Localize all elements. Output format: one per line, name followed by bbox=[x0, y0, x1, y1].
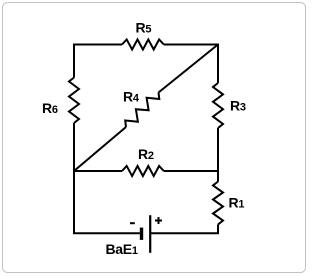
wire top-left corner: top wire left part + left vertical top bbox=[74, 45, 122, 78]
wire diagonal upper segment bbox=[159, 45, 219, 93]
wire diagonal lower segment bbox=[74, 127, 126, 171]
resistor R6 bbox=[69, 78, 79, 124]
resistor R5 bbox=[122, 40, 164, 50]
battery BaE1 positive plate bbox=[149, 215, 151, 253]
battery BaE1 negative plate bbox=[140, 228, 143, 240]
resistor R1 bbox=[213, 182, 223, 225]
resistor R3 bbox=[213, 83, 223, 128]
resistor R4 bbox=[125, 93, 159, 128]
battery plus sign bbox=[155, 217, 162, 224]
battery minus sign bbox=[130, 222, 135, 224]
wire R2 to mid-right junction bbox=[164, 170, 219, 172]
resistor R2 bbox=[122, 166, 164, 176]
wire left vertical lower + bottom-left corner + bottom wire left bbox=[74, 123, 140, 233]
wire R3 to R1 through mid-right junction bbox=[217, 128, 219, 182]
wire top-right corner: top wire right part + right vertical top bbox=[164, 45, 218, 84]
wire R1 to bottom-right corner + bottom wire right bbox=[151, 225, 218, 234]
wire mid-left junction to R2 bbox=[74, 170, 122, 172]
